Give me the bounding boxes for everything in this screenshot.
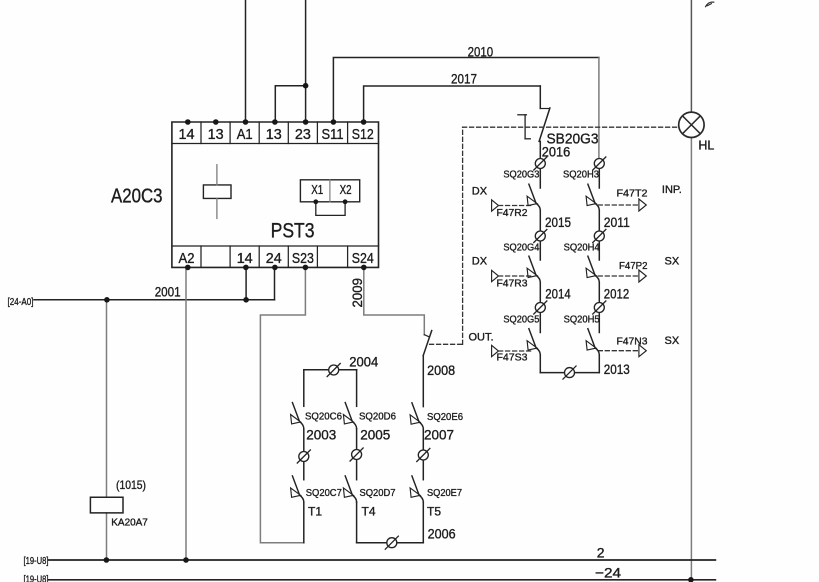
svg-text:SQ20H4: SQ20H4 [564,242,600,254]
svg-text:F47T2: F47T2 [617,188,648,200]
svg-text:A20C3: A20C3 [111,186,163,208]
svg-text:SQ20C6: SQ20C6 [305,411,342,423]
svg-text:HL: HL [698,139,714,153]
svg-text:2013: 2013 [604,361,630,377]
svg-text:F47S3: F47S3 [497,352,528,364]
svg-text:A2: A2 [179,250,195,267]
svg-text:F47R3: F47R3 [497,277,528,289]
svg-text:SQ20H3: SQ20H3 [563,169,599,181]
svg-text:SQ20G4: SQ20G4 [503,242,539,254]
svg-text:13: 13 [266,126,282,143]
svg-text:SQ20E6: SQ20E6 [427,411,463,423]
svg-text:2010: 2010 [468,44,494,60]
svg-text:PST3: PST3 [271,220,315,243]
svg-text:[19-U8]: [19-U8] [24,555,49,567]
svg-text:24: 24 [266,250,282,267]
svg-text:X2: X2 [340,182,352,197]
svg-text:F47R2: F47R2 [497,207,528,219]
svg-text:F47N3: F47N3 [617,335,648,347]
svg-text:DX: DX [472,186,488,198]
svg-text:14: 14 [179,126,195,143]
svg-text:2016: 2016 [542,144,571,160]
svg-text:T4: T4 [362,505,376,519]
svg-text:F47P2: F47P2 [619,260,648,272]
svg-text:2003: 2003 [306,427,336,443]
svg-text:DX: DX [472,256,488,268]
svg-text:2014: 2014 [545,285,571,301]
svg-text:A1: A1 [237,126,253,143]
svg-text:KA20A7: KA20A7 [111,517,148,529]
svg-text:SX: SX [665,335,680,347]
svg-text:13: 13 [208,126,224,143]
svg-text:SQ20G5: SQ20G5 [503,314,539,326]
svg-text:2004: 2004 [349,354,378,370]
svg-text:[24-A0]: [24-A0] [8,296,34,308]
svg-text:2006: 2006 [428,526,456,542]
svg-text:(1015): (1015) [116,478,146,492]
svg-text:[19-U8]: [19-U8] [24,574,49,582]
svg-text:2009: 2009 [349,278,365,308]
svg-text:SQ20E7: SQ20E7 [427,487,462,499]
svg-text:T5: T5 [427,505,441,519]
svg-text:2007: 2007 [424,427,454,443]
svg-text:2012: 2012 [604,285,630,301]
svg-text:INP.: INP. [662,184,682,196]
svg-text:X1: X1 [311,182,323,197]
svg-text:2015: 2015 [545,214,571,230]
svg-text:2011: 2011 [604,214,630,230]
svg-text:2005: 2005 [360,427,390,443]
svg-text:SQ20C7: SQ20C7 [306,487,342,499]
svg-text:2017: 2017 [451,71,477,87]
svg-text:SX: SX [665,256,680,268]
svg-text:SQ20H5: SQ20H5 [564,314,600,326]
svg-text:2: 2 [597,545,605,561]
svg-text:S11: S11 [322,126,344,143]
svg-text:23: 23 [295,126,311,143]
svg-text:S24: S24 [352,250,374,267]
svg-text:SQ20G3: SQ20G3 [503,169,539,181]
svg-text:−24: −24 [595,565,621,581]
svg-text:OUT.: OUT. [469,332,494,344]
svg-text:SQ20D7: SQ20D7 [360,487,396,499]
svg-text:14: 14 [237,250,253,267]
svg-text:S23: S23 [292,250,314,267]
svg-text:SQ20D6: SQ20D6 [359,411,396,423]
svg-text:S12: S12 [352,126,374,143]
svg-text:2001: 2001 [155,284,181,300]
svg-text:T1: T1 [308,505,322,519]
svg-text:2008: 2008 [427,362,455,378]
